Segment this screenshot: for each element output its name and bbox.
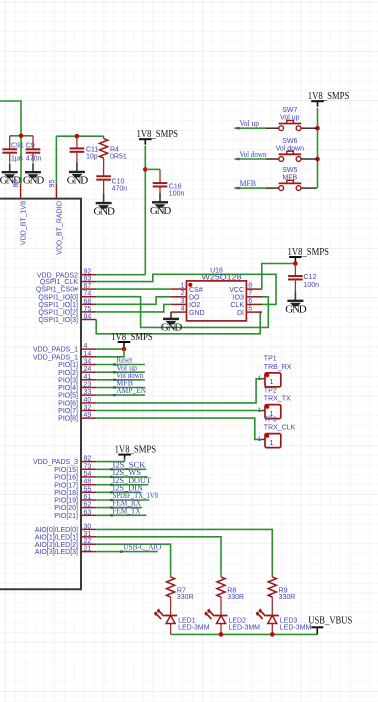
- switch SW5 MFB: [266, 167, 317, 191]
- svg-text:PIO[20]: PIO[20]: [54, 505, 78, 512]
- capacitor C16: [153, 169, 185, 197]
- svg-text:SW5: SW5: [282, 167, 297, 174]
- svg-text:VDD_BT_RADIO: VDD_BT_RADIO: [56, 200, 63, 254]
- ground for C10: [93, 194, 114, 218]
- svg-text:C11: C11: [86, 146, 98, 153]
- wire switch common to 1V8_SMPS: [317, 108, 319, 188]
- pin 73 PIO[15]: [54, 463, 96, 474]
- svg-text:SW7: SW7: [282, 107, 297, 114]
- wire QSPI1_IO[3] to U16 DI: [96, 312, 262, 334]
- junction C12 tap: [293, 261, 298, 266]
- wire VDD_PADS_1 pin4: [96, 348, 124, 350]
- svg-text:TRB_RX: TRB_RX: [264, 364, 292, 371]
- svg-text:GND: GND: [67, 174, 88, 186]
- pin 54 PIO[16]: [54, 471, 96, 482]
- svg-text:33: 33: [84, 389, 92, 396]
- svg-text:USB-C_AIO: USB-C_AIO: [123, 543, 161, 552]
- junction LED2: [219, 632, 224, 637]
- svg-text:PIO[17]: PIO[17]: [54, 482, 78, 489]
- wire VDD_PADS2 to 1V8_SMPS: [96, 274, 145, 276]
- svg-text:73: 73: [84, 463, 92, 470]
- svg-text:100n: 100n: [169, 191, 185, 198]
- wire down to pin 95: [55, 136, 57, 183]
- svg-text:1V8_SMPS: 1V8_SMPS: [111, 332, 153, 343]
- junction VDD_PADS_1: [122, 347, 127, 352]
- svg-text:75: 75: [84, 306, 92, 313]
- svg-text:DI: DI: [237, 310, 244, 317]
- svg-text:49: 49: [84, 412, 92, 419]
- svg-text:C16: C16: [169, 183, 182, 190]
- pin 32 PIO[7]: [58, 405, 96, 416]
- svg-text:8: 8: [248, 283, 252, 290]
- svg-text:68: 68: [84, 298, 92, 305]
- svg-text:C10: C10: [112, 179, 125, 186]
- svg-text:GND: GND: [285, 303, 306, 315]
- svg-text:67: 67: [84, 283, 92, 290]
- svg-text:QSPI1_CS0#: QSPI1_CS0#: [36, 287, 78, 294]
- pin 49 PIO[8]: [58, 412, 96, 423]
- capacitor C11: [70, 136, 99, 164]
- svg-text:VDD_PADS_1: VDD_PADS_1: [33, 347, 78, 354]
- svg-text:CS#: CS#: [189, 287, 203, 294]
- svg-text:TRX_CLK: TRX_CLK: [264, 425, 296, 432]
- svg-text:W25Q128: W25Q128: [202, 274, 242, 281]
- svg-text:VDD_PADS_3: VDD_PADS_3: [33, 459, 78, 466]
- LED LED2: [204, 599, 260, 634]
- svg-text:1V8_SMPS: 1V8_SMPS: [137, 129, 179, 140]
- svg-text:1: 1: [258, 407, 262, 414]
- wire net FEM_TX: [96, 514, 146, 516]
- svg-text:1V8_SMPS: 1V8_SMPS: [288, 247, 330, 258]
- svg-text:QSPI1_IO[2]: QSPI1_IO[2]: [38, 310, 78, 317]
- svg-text:VCC: VCC: [229, 287, 244, 294]
- capacitor C10: [96, 160, 127, 195]
- svg-text:LED-3MM: LED-3MM: [229, 624, 261, 631]
- LED LED1: [154, 599, 210, 634]
- svg-text:PIO[21]: PIO[21]: [54, 513, 78, 520]
- svg-text:54: 54: [84, 471, 92, 478]
- pin 22 AIO[2]/LED[2]: [35, 538, 96, 549]
- resistor R7: [167, 575, 194, 601]
- svg-text:GND: GND: [161, 321, 182, 333]
- ground for C16: [150, 193, 171, 217]
- svg-text:41: 41: [84, 374, 92, 381]
- wire QSPI1_CS0# to U16 CS#: [96, 288, 171, 290]
- switch SW7 Vol up: [266, 107, 317, 131]
- svg-text:1: 1: [269, 438, 273, 447]
- svg-text:IO2: IO2: [189, 302, 200, 309]
- wire VDD_PADS_3: [96, 461, 124, 463]
- junction node C11 tap: [75, 134, 80, 139]
- svg-text:VDD_PADS_1: VDD_PADS_1: [33, 354, 78, 361]
- test point TP3 TRX_CLK: [258, 416, 296, 447]
- svg-text:40: 40: [84, 397, 92, 404]
- svg-text:PIO[6]: PIO[6]: [58, 401, 78, 408]
- svg-text:VDD_BT_1V8: VDD_BT_1V8: [21, 201, 28, 245]
- power flag USB_VBUS: [308, 616, 352, 635]
- svg-text:C12: C12: [304, 274, 317, 281]
- svg-text:CLK: CLK: [230, 302, 244, 309]
- power flag 1V8_SMPS at VDD_PADS_3: [115, 445, 157, 461]
- svg-text:95: 95: [49, 180, 56, 188]
- svg-text:55: 55: [84, 486, 92, 493]
- svg-text:PIO[19]: PIO[19]: [54, 498, 78, 505]
- svg-text:FEM_TX: FEM_TX: [113, 506, 141, 515]
- ground for U16 GND pin: [170, 312, 172, 319]
- svg-text:GND: GND: [23, 175, 44, 187]
- test point TP1 TRB_RX: [258, 356, 292, 387]
- svg-text:PIO[4]: PIO[4]: [58, 385, 78, 392]
- svg-text:GND: GND: [150, 205, 171, 217]
- wire C91-C9 rail: [10, 135, 33, 137]
- pin 74 QSPI1_IO[0]: [38, 291, 96, 302]
- junction SW6: [315, 157, 320, 162]
- svg-text:61: 61: [84, 494, 92, 501]
- wire net I2S_WS: [96, 476, 147, 478]
- pin 14 VDD_PADS_1: [33, 351, 96, 362]
- svg-text:330R: 330R: [279, 594, 296, 601]
- svg-text:MFB: MFB: [282, 175, 297, 182]
- svg-text:48: 48: [84, 479, 92, 486]
- svg-text:SW6: SW6: [282, 138, 297, 145]
- junction node VDD_BT_1V8 rail: [19, 134, 24, 139]
- wire net AMP_EN: [96, 394, 145, 396]
- svg-text:AIO[2]/LED[2]: AIO[2]/LED[2]: [35, 542, 78, 549]
- switch SW6 Vol down: [266, 138, 317, 162]
- junction LED3: [270, 632, 275, 637]
- junction SW7: [315, 126, 320, 131]
- pin 82 VDD_PADS_3: [33, 456, 96, 467]
- pin 23 PIO[4]: [58, 382, 96, 393]
- test point TP2 TRX_TX: [258, 387, 291, 418]
- pin 75 QSPI1_IO[2]: [38, 306, 96, 317]
- svg-text:1V8_SMPS: 1V8_SMPS: [308, 91, 350, 102]
- wire VDD_BT_RADIO rail: [56, 135, 103, 137]
- wire QSPI1_IO[0] to U16 IO3: [96, 297, 268, 328]
- wire from left edge down to pin 86: [0, 101, 21, 184]
- svg-text:QSPI1_IO[1]: QSPI1_IO[1]: [38, 302, 78, 309]
- svg-text:14: 14: [84, 351, 92, 358]
- wire to C16: [145, 168, 160, 170]
- svg-text:1: 1: [258, 436, 262, 443]
- wire net I2S_DOUT: [96, 484, 148, 486]
- pin 40 PIO[6]: [58, 397, 96, 408]
- svg-text:IO3: IO3: [233, 295, 244, 302]
- svg-text:AIO[0]/LED[0]: AIO[0]/LED[0]: [35, 527, 78, 534]
- svg-text:1: 1: [258, 375, 262, 382]
- svg-text:QSPI1_IO[0]: QSPI1_IO[0]: [38, 294, 78, 301]
- svg-text:21: 21: [84, 546, 92, 553]
- wire net Vol up: [96, 371, 145, 373]
- svg-text:30: 30: [84, 523, 92, 530]
- power flag 1V8_SMPS middle: [137, 129, 179, 145]
- svg-text:TP2: TP2: [264, 387, 277, 394]
- wire LED cathode bus to USB_VBUS: [171, 633, 318, 635]
- svg-text:Vol down: Vol down: [240, 150, 267, 159]
- svg-text:AMP_EN: AMP_EN: [116, 386, 146, 395]
- resistor R4: [100, 136, 127, 160]
- svg-text:5: 5: [248, 306, 252, 313]
- wire AIO[0] to R9: [96, 529, 272, 574]
- pin 41 PIO[3]: [58, 374, 96, 385]
- pin 95 VDD_BT_RADIO: [49, 180, 63, 255]
- svg-text:100n: 100n: [304, 282, 320, 289]
- svg-text:GND: GND: [189, 310, 205, 317]
- svg-text:86: 86: [13, 180, 20, 188]
- wire PIO[7] to TP2: [96, 410, 261, 412]
- svg-text:C9: C9: [26, 143, 35, 150]
- svg-text:LED-3MM: LED-3MM: [178, 624, 210, 631]
- capacitor C9: [26, 136, 42, 163]
- svg-text:330R: 330R: [227, 594, 244, 601]
- wire AIO[2] to R7: [96, 544, 170, 574]
- svg-text:0R51: 0R51: [110, 154, 127, 161]
- svg-text:10p: 10p: [86, 153, 98, 160]
- svg-text:1V8_SMPS: 1V8_SMPS: [115, 445, 157, 456]
- pin 86 VDD_BT_1V8: [13, 180, 27, 245]
- wire QSPI1_CLK to U16 CLK: [96, 274, 276, 304]
- junction node C16 tap: [143, 167, 148, 172]
- svg-text:470n: 470n: [26, 156, 42, 163]
- svg-text:USB_VBUS: USB_VBUS: [308, 616, 352, 627]
- svg-text:24: 24: [84, 366, 92, 373]
- pin 31 AIO[1]/LED[1]: [35, 531, 96, 542]
- pin 55 PIO[18]: [54, 486, 96, 497]
- wire net Vol down: [96, 379, 145, 381]
- pin 48 PIO[17]: [54, 479, 96, 490]
- svg-text:TRX_TX: TRX_TX: [264, 396, 291, 403]
- svg-text:GND: GND: [93, 206, 114, 218]
- svg-text:AIO[3]/LED[3]: AIO[3]/LED[3]: [35, 549, 78, 556]
- pin 34 PIO[1]: [58, 359, 96, 370]
- svg-text:LED3: LED3: [280, 617, 298, 624]
- svg-text:2: 2: [181, 290, 185, 297]
- svg-text:1: 1: [269, 377, 273, 386]
- IC U1 (partial) outline: [0, 199, 81, 590]
- pin 30 AIO[0]/LED[0]: [35, 523, 96, 534]
- ground for C12: [285, 292, 306, 316]
- svg-text:4: 4: [181, 306, 185, 313]
- wire AIO[1] to R8: [96, 537, 221, 575]
- svg-text:LED-3MM: LED-3MM: [280, 624, 312, 631]
- svg-text:3: 3: [181, 298, 185, 305]
- wire 1V8_SMPS down to pin 92: [144, 146, 146, 275]
- pin 84 QSPI1_IO[3]: [38, 314, 96, 325]
- svg-text:32: 32: [84, 405, 92, 412]
- ground for C91: [0, 163, 21, 187]
- svg-text:22: 22: [84, 538, 92, 545]
- wire net MFB: [234, 187, 266, 189]
- svg-text:Vol down: Vol down: [276, 145, 305, 152]
- svg-text:330R: 330R: [177, 594, 194, 601]
- wire net I2S_SCK: [96, 468, 146, 470]
- pin 83 QSPI1_CLK: [40, 276, 96, 287]
- wire VDD_PADS_1 pin14: [96, 349, 124, 357]
- pin 63 PIO[21]: [54, 509, 96, 520]
- svg-text:84: 84: [84, 314, 92, 321]
- IC U16 W25Q128: [171, 268, 262, 321]
- power flag 1V8_SMPS at C12: [288, 247, 330, 263]
- wire net Vol down: [234, 158, 266, 160]
- pin 62 PIO[20]: [54, 502, 96, 513]
- svg-text:PIO[8]: PIO[8]: [58, 416, 78, 423]
- power flag 1V8_SMPS top right: [308, 91, 350, 107]
- svg-text:4: 4: [84, 343, 88, 350]
- svg-text:PIO[7]: PIO[7]: [58, 408, 78, 415]
- svg-text:34: 34: [84, 359, 92, 366]
- pin 33 PIO[5]: [58, 389, 96, 400]
- wire net FEM_RX: [96, 507, 142, 509]
- svg-text:Vol up: Vol up: [280, 115, 300, 122]
- svg-text:23: 23: [84, 382, 92, 389]
- svg-text:LED2: LED2: [229, 617, 247, 624]
- svg-text:QSPI1_IO[3]: QSPI1_IO[3]: [38, 317, 78, 324]
- ground for C11: [67, 163, 88, 187]
- svg-text:DO: DO: [189, 295, 200, 302]
- svg-text:LED1: LED1: [178, 617, 196, 624]
- svg-text:74: 74: [84, 291, 92, 298]
- wire U16 VCC to 1V8_SMPS: [262, 264, 296, 290]
- pin 4 VDD_PADS_1: [33, 343, 96, 354]
- wire net USB-C_AIO: [96, 551, 158, 553]
- svg-text:R4: R4: [110, 147, 119, 154]
- resistor R8: [217, 575, 244, 601]
- svg-text:PIO[16]: PIO[16]: [54, 475, 78, 482]
- wire net MFB: [96, 387, 145, 389]
- svg-text:MFB: MFB: [240, 179, 257, 188]
- wire PIO[8] to TP3: [96, 418, 261, 439]
- pin 21 AIO[3]/LED[3]: [35, 546, 96, 557]
- pin 24 PIO[2]: [58, 366, 96, 377]
- wire net Reset: [96, 364, 145, 366]
- wire net SPDIF_TX_1V8: [96, 499, 149, 501]
- svg-text:PIO[15]: PIO[15]: [54, 467, 78, 474]
- resistor R9: [268, 575, 295, 601]
- wire QSPI1_IO[2] to U16 IO2: [96, 304, 171, 312]
- LED LED3: [256, 599, 312, 634]
- pin 67 QSPI1_CS0#: [36, 283, 96, 294]
- svg-text:TP3: TP3: [264, 416, 277, 423]
- svg-text:C91: C91: [11, 143, 24, 150]
- svg-text:470n: 470n: [112, 186, 128, 193]
- svg-text:AIO[1]/LED[1]: AIO[1]/LED[1]: [35, 534, 78, 541]
- svg-text:PIO[2]: PIO[2]: [58, 370, 78, 377]
- svg-text:6: 6: [248, 298, 252, 305]
- svg-text:PIO[5]: PIO[5]: [58, 393, 78, 400]
- pin 68 QSPI1_IO[1]: [38, 298, 96, 309]
- svg-text:PIO[18]: PIO[18]: [54, 490, 78, 497]
- svg-text:7: 7: [248, 290, 252, 297]
- wire QSPI1_IO[1] to U16 DO: [96, 297, 171, 305]
- capacitor C12: [288, 264, 319, 293]
- svg-text:PIO[3]: PIO[3]: [58, 377, 78, 384]
- ground for C9: [23, 163, 44, 187]
- svg-text:TP1: TP1: [264, 356, 277, 363]
- svg-text:Vol up: Vol up: [240, 119, 260, 128]
- svg-text:82: 82: [84, 456, 92, 463]
- pin 61 PIO[19]: [54, 494, 96, 505]
- power flag 1V8_SMPS at VDD_PADS_1: [111, 332, 153, 348]
- wire net Vol up: [234, 127, 266, 129]
- wire PIO[6] to TP1: [96, 379, 261, 403]
- capacitor C91: [2, 136, 24, 163]
- svg-text:PIO[1]: PIO[1]: [58, 362, 78, 369]
- svg-text:1: 1: [181, 283, 185, 290]
- svg-text:1µ6: 1µ6: [11, 156, 23, 163]
- svg-text:63: 63: [84, 509, 92, 516]
- pin 92 VDD_PADS2: [37, 269, 96, 280]
- svg-text:31: 31: [84, 531, 92, 538]
- svg-text:QSPI1_CLK: QSPI1_CLK: [40, 279, 78, 286]
- wire net I2S_DIN: [96, 491, 141, 493]
- svg-text:62: 62: [84, 502, 92, 509]
- svg-text:83: 83: [84, 276, 92, 283]
